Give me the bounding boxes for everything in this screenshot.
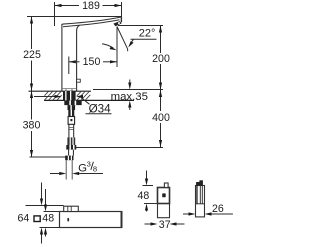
svg-text:8: 8: [93, 165, 97, 174]
svg-text:48: 48: [138, 190, 150, 202]
bottom-middle view: knob: [164, 183, 168, 188]
svg-text:189: 189: [82, 0, 100, 12]
bottom-left view: sensor window: [67, 218, 69, 221]
label 150: [83, 56, 101, 68]
arrow at shank left: [34, 95, 62, 98]
dimension max35 arrows: [128, 80, 131, 111]
label 380: [23, 120, 41, 132]
dimension 189 horizontal line: [55, 4, 122, 7]
svg-text:150: 150: [83, 56, 101, 68]
extension line 189 left: [54, 2, 56, 26]
label 48 middle: [138, 190, 150, 202]
water jet axis vertical extension: [116, 27, 118, 68]
deck hatching left: [45, 92, 62, 101]
dimension G3/8 arrows: [50, 172, 103, 175]
svg-text:200: 200: [152, 53, 170, 65]
dimension 200-400 vertical line: [159, 26, 162, 148]
dimension 26 arrows: [183, 212, 233, 215]
bottom-left view: base cap: [64, 206, 79, 211]
svg-text:max.35: max.35: [111, 91, 148, 103]
label 48 bottom-left: [42, 213, 54, 225]
deck bottom line: [44, 99, 134, 101]
leader diameter 34: [76, 95, 90, 104]
bottom-middle view: dot: [162, 193, 166, 197]
label 22 degrees: [139, 27, 156, 39]
svg-text:380: 380: [23, 120, 41, 132]
label 200: [152, 53, 170, 65]
bottom-left view: dimension 64 arrows: [40, 183, 43, 244]
dimension 225 vertical line: [30, 17, 33, 92]
dimension 37 arrows: [145, 222, 185, 225]
deck top line: [29, 90, 92, 92]
hose segment 1: [68, 105, 76, 110]
sensor leader arrow: [102, 44, 117, 51]
dimension 150 horizontal line: [69, 60, 117, 63]
label diameter 34: [86, 103, 112, 116]
water jet 22 degree line: [117, 27, 128, 52]
leader 22 degrees: [128, 39, 156, 47]
hose segment 4: [67, 137, 75, 145]
extension tick 150 left: [68, 57, 70, 75]
hose thin tube: [69, 150, 74, 156]
extension line outlet level right: [118, 25, 163, 27]
deck hatching right: [77, 92, 90, 101]
bottom-left view: dimension 48 arrows: [44, 189, 47, 237]
hose tube middle: [69, 124, 74, 137]
threaded shank in deck: [63, 91, 76, 100]
hose segment 2: [68, 110, 74, 117]
bottom-left view: body rectangle: [40, 212, 122, 228]
svg-text:225: 225: [23, 49, 41, 61]
extension line 189 right: [121, 2, 123, 21]
svg-text:3: 3: [87, 160, 91, 169]
svg-text:22°: 22°: [139, 27, 156, 39]
hose nut 2: [66, 145, 76, 150]
label 37: [159, 219, 171, 231]
label 225: [23, 49, 41, 61]
svg-text:64: 64: [18, 213, 30, 225]
svg-text:48: 48: [42, 213, 54, 225]
G3/8 tube: [66, 160, 72, 179]
aerator at spout tip: [113, 21, 121, 26]
svg-text:26: 26: [212, 203, 224, 215]
bottom-right view: control box side rectangle: [196, 186, 205, 217]
extension line hose-bottom left: [30, 156, 67, 158]
mounting nut below deck: [64, 101, 81, 106]
bottom-middle view: dimension 48 arrows: [143, 171, 154, 212]
label 189: [82, 0, 100, 12]
svg-text:400: 400: [152, 112, 170, 124]
sensor nub on body right edge: [77, 79, 81, 82]
extension line hose-bottom right: [76, 147, 163, 149]
G3/8 fitting dark: [65, 156, 73, 161]
dimension 380 vertical line: [30, 91, 33, 157]
label 64: [18, 213, 30, 225]
bottom-right view: cap stripes: [196, 186, 202, 204]
label 26: [212, 203, 224, 215]
extension line deck top right: [93, 89, 163, 91]
bottom-middle view: control box rectangle: [144, 188, 170, 218]
extension line spout-top level: [27, 16, 121, 18]
bottom-left view: extension line base top: [26, 205, 64, 207]
svg-text:37: 37: [159, 219, 171, 231]
label 400: [152, 112, 170, 124]
faucet body outline: [62, 17, 122, 91]
bottom-right view: knob dark: [196, 180, 203, 185]
label G3/8: [78, 160, 97, 175]
label max.35: [111, 91, 148, 103]
hose segment 3: [68, 117, 75, 125]
square symbol: [34, 216, 40, 222]
